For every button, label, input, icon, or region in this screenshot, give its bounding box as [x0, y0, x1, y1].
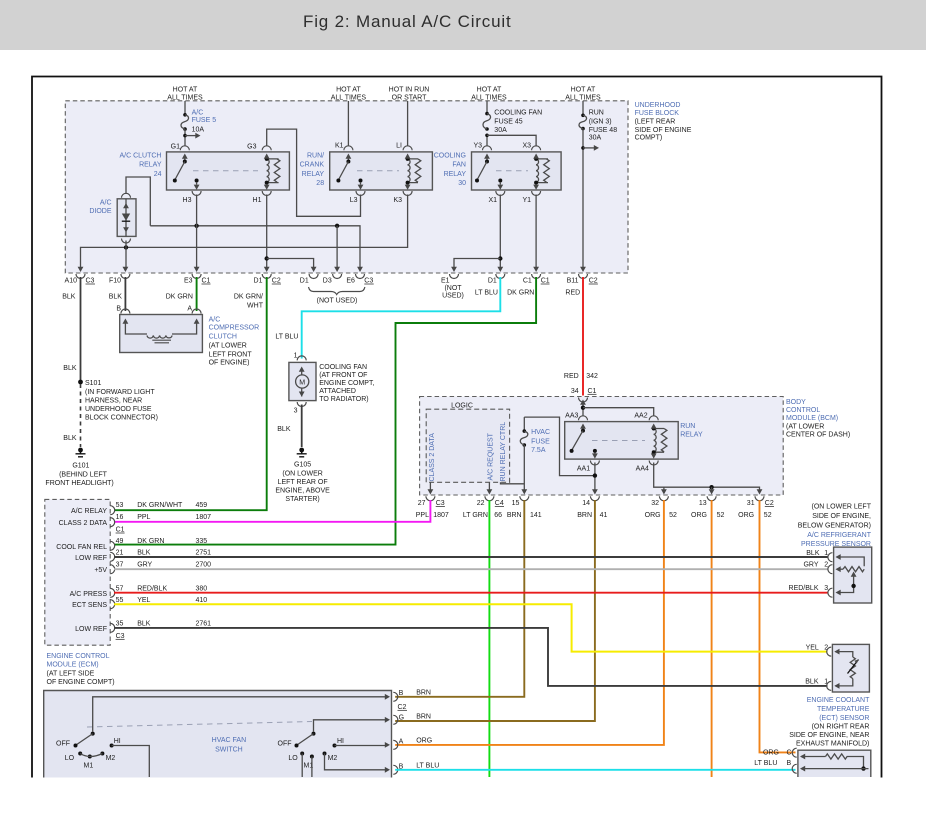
svg-text:342: 342 — [586, 373, 598, 380]
underhood fuse block (dashed box) — [65, 101, 628, 273]
svg-text:EXHAUST MANIFOLD): EXHAUST MANIFOLD) — [796, 741, 869, 748]
svg-text:AA1: AA1 — [577, 465, 590, 472]
svg-text:(ON LOWER: (ON LOWER — [282, 470, 322, 477]
diode symbol D1 — [122, 199, 130, 237]
label UNDERHOOD FUSE BLOCK (LEFT REAR SIDE OF ENGINE COMPT) — [635, 102, 692, 142]
svg-text:RELAY: RELAY — [444, 171, 467, 178]
coil in run relay — [651, 424, 667, 455]
svg-text:GRY: GRY — [803, 562, 818, 569]
svg-text:OF ENGINE COMPT): OF ENGINE COMPT) — [47, 679, 115, 686]
fuse F48 RUN (IGN 3) FUSE 48 30A — [579, 114, 587, 131]
svg-text:(AT LOWER: (AT LOWER — [209, 343, 247, 350]
pin G of HVAC switch — [385, 714, 404, 724]
fuse F45 COOLING FAN FUSE 45 30A — [483, 112, 491, 131]
wire: ground net A10-F10-diode-K3 — [81, 195, 408, 269]
svg-text:BODY: BODY — [786, 399, 806, 406]
A/C diode box — [117, 199, 136, 237]
svg-text:+5V: +5V — [94, 567, 107, 574]
svg-text:G105: G105 — [294, 462, 311, 469]
wire: fuse 5 to relay pin G1 with branch arrow — [183, 129, 200, 146]
svg-text:ALL TIMES: ALL TIMES — [331, 95, 367, 102]
HVAC fuse 7.5A — [520, 417, 528, 447]
svg-text:HVAC: HVAC — [531, 429, 550, 436]
wire ORG: BCM 31 to blower resistor pin C — [760, 500, 796, 752]
label A/C FUSE 5 10A — [192, 110, 217, 134]
svg-text:C2: C2 — [398, 704, 407, 711]
svg-text:F10: F10 — [109, 278, 121, 285]
svg-text:141: 141 — [530, 512, 542, 519]
svg-text:AA3: AA3 — [565, 413, 578, 420]
thermistor inside ECT sensor — [834, 649, 858, 689]
svg-text:C1: C1 — [116, 527, 125, 534]
svg-text:LO: LO — [65, 755, 75, 762]
svg-text:RUN: RUN — [680, 423, 695, 430]
svg-text:BLK: BLK — [63, 365, 77, 372]
pin G1 — [171, 143, 190, 150]
svg-text:LOW REF: LOW REF — [75, 555, 107, 562]
connector 22/C4 — [477, 496, 504, 507]
svg-text:M2: M2 — [328, 755, 338, 762]
connector 14 — [582, 496, 599, 507]
label G101 (BEHIND LEFT FRONT HEADLIGHT) — [45, 463, 113, 487]
svg-text:OF ENGINE): OF ENGINE) — [209, 360, 250, 367]
pin B of compressor clutch — [116, 306, 130, 314]
ECM pin 53 A/C RELAY — [71, 502, 207, 515]
ECM pin 57 A/C PRESS — [70, 586, 208, 599]
svg-text:C2: C2 — [272, 278, 281, 285]
svg-text:DIODE: DIODE — [89, 208, 112, 215]
svg-text:SIDE OF ENGINE: SIDE OF ENGINE — [635, 127, 692, 134]
cooling fan relay box — [472, 152, 562, 190]
svg-text:Y1: Y1 — [522, 197, 531, 204]
svg-text:OFF: OFF — [278, 741, 292, 748]
svg-text:SWITCH: SWITCH — [215, 747, 243, 754]
svg-text:7.5A: 7.5A — [531, 447, 546, 454]
svg-text:RED: RED — [564, 373, 579, 380]
svg-text:COOL FAN REL: COOL FAN REL — [56, 544, 107, 551]
svg-text:M1: M1 — [84, 762, 94, 769]
svg-text:30A: 30A — [494, 127, 507, 134]
svg-text:(ON RIGHT REAR: (ON RIGHT REAR — [812, 723, 870, 730]
svg-text:C3: C3 — [364, 278, 373, 285]
label ENGINE COOLANT TEMPERATURE (ECT) SENSOR (ON RIGHT REAR SIDE OF ENGINE, NEAR EXHAUST MANIFOLD) — [789, 697, 870, 748]
svg-text:S101: S101 — [85, 380, 101, 387]
wire: AA1 to BCM pin 14 — [592, 463, 598, 495]
label LT GRN 66 — [463, 512, 502, 519]
svg-text:LOW REF: LOW REF — [75, 626, 107, 633]
pin A of HVAC switch — [385, 738, 404, 749]
junction H1 branch — [265, 256, 269, 260]
svg-text:FUSE 48: FUSE 48 — [589, 127, 618, 134]
ground G101 — [76, 448, 86, 457]
svg-text:15: 15 — [512, 500, 520, 507]
svg-text:A/C RELAY: A/C RELAY — [71, 508, 107, 515]
svg-text:(AT LEFT SIDE: (AT LEFT SIDE — [47, 670, 95, 677]
svg-text:HOT AT: HOT AT — [173, 87, 198, 94]
blower resistor box (cut off at bottom) — [798, 750, 871, 777]
relay internal dashed link (cooling fan relay) — [496, 170, 528, 172]
svg-text:(ECT) SENSOR: (ECT) SENSOR — [819, 715, 869, 722]
pin Y3 — [473, 143, 491, 151]
label A/C DIODE — [89, 200, 112, 216]
ground G105 — [297, 448, 307, 457]
svg-text:C1: C1 — [588, 388, 597, 395]
wire ORG: BCM 32 to HVAC switch pin A — [395, 500, 664, 745]
connector E1 (not used) — [441, 267, 464, 300]
svg-text:LI: LI — [396, 143, 402, 150]
connector D1 (LT BLU) — [488, 267, 505, 285]
pin 2 of ECT sensor — [827, 647, 831, 656]
wire: G3 to L3 net — [267, 129, 361, 216]
svg-text:BRN: BRN — [507, 512, 522, 519]
svg-text:(ON LOWER LEFT: (ON LOWER LEFT — [811, 504, 871, 511]
connector 13 — [699, 496, 716, 507]
pin AA2 — [634, 413, 658, 421]
label YEL 2 (ECT pin) — [806, 645, 829, 652]
svg-text:Y3: Y3 — [473, 143, 482, 150]
wire BLK: F10 to compressor clutch pin B — [124, 277, 126, 311]
wire BLK: motor pin 3 to G105 — [301, 405, 303, 448]
connector 15 — [512, 496, 529, 507]
svg-text:G: G — [399, 714, 404, 721]
svg-text:HOT AT: HOT AT — [571, 87, 596, 94]
connector D1 (not used) — [300, 267, 318, 285]
label ENGINE CONTROL MODULE (ECM) (AT LEFT SIDE OF ENGINE COMPT) — [47, 653, 115, 686]
connector 32 — [651, 496, 668, 507]
svg-text:RUN RELAY CTRL: RUN RELAY CTRL — [500, 422, 507, 482]
svg-text:13: 13 — [699, 500, 707, 507]
wire: fuse 48 to B11 with branch arrow — [581, 129, 599, 269]
label A/C CLUTCH RELAY 24 — [119, 152, 161, 178]
svg-text:FRONT HEADLIGHT): FRONT HEADLIGHT) — [45, 480, 113, 487]
svg-text:459: 459 — [196, 502, 208, 509]
svg-text:C3: C3 — [86, 278, 95, 285]
label ORG 52 (pin 13) — [691, 512, 724, 519]
pin 3 of cooling fan motor — [294, 402, 307, 415]
svg-text:(NOT: (NOT — [444, 285, 462, 292]
svg-text:COOLING FAN: COOLING FAN — [494, 110, 542, 117]
ECM pin 35 LOW REF — [75, 621, 211, 640]
svg-text:BLOCK CONNECTOR): BLOCK CONNECTOR) — [85, 415, 158, 422]
svg-text:(AT FRONT OF: (AT FRONT OF — [319, 372, 367, 379]
svg-text:X3: X3 — [522, 143, 531, 150]
HVAC fan switch box — [44, 691, 392, 778]
svg-text:35: 35 — [116, 621, 124, 628]
svg-text:(NOT USED): (NOT USED) — [317, 298, 358, 305]
connector C1/C1 — [523, 267, 550, 285]
wire: A/C REQUEST to BCM pin 22 — [487, 482, 493, 494]
pin K1 — [335, 143, 353, 151]
svg-text:CLASS 2 DATA: CLASS 2 DATA — [429, 433, 436, 482]
svg-text:CLASS 2 DATA: CLASS 2 DATA — [59, 520, 108, 527]
svg-text:28: 28 — [316, 180, 324, 187]
relay internal dashed link (run relay) — [592, 440, 645, 442]
svg-text:B: B — [399, 690, 404, 697]
connector 34/C1 entry into BCM — [579, 398, 588, 405]
label DK GRN/ WHT (D1/C2) — [234, 294, 264, 310]
svg-text:410: 410 — [196, 597, 208, 604]
pin X1 — [488, 182, 504, 204]
svg-text:M: M — [299, 380, 305, 387]
svg-text:HOT AT: HOT AT — [477, 87, 502, 94]
svg-text:BRN: BRN — [416, 690, 431, 697]
svg-text:HOT IN RUN: HOT IN RUN — [389, 87, 430, 94]
svg-text:335: 335 — [196, 538, 208, 545]
wire PPL: BCM 27 to ECM 16 — [114, 500, 430, 522]
svg-text:AA4: AA4 — [636, 465, 649, 472]
wire RED: B11 to BCM pin 34 — [582, 277, 584, 396]
svg-text:BELOW GENERATOR): BELOW GENERATOR) — [798, 523, 871, 530]
svg-text:MODULE (ECM): MODULE (ECM) — [47, 662, 99, 669]
potentiometer inside pressure sensor — [836, 554, 865, 595]
svg-text:RUN/: RUN/ — [307, 152, 324, 159]
svg-text:BLK: BLK — [137, 550, 151, 557]
junction X1 branch — [498, 256, 502, 260]
svg-text:66: 66 — [494, 512, 502, 519]
svg-text:CONTROL: CONTROL — [786, 407, 820, 414]
svg-text:C1: C1 — [523, 278, 532, 285]
svg-text:E6: E6 — [346, 278, 355, 285]
svg-text:ORG: ORG — [645, 512, 661, 519]
fuse F5 A/C FUSE 5 10A — [181, 113, 189, 131]
labels OFF LO M1 M2 HI (left switch) — [56, 738, 121, 769]
svg-text:BLK: BLK — [63, 435, 77, 442]
A/C compressor clutch box — [120, 315, 203, 353]
svg-text:(BEHIND LEFT: (BEHIND LEFT — [59, 471, 108, 478]
engine control module (dashed box) — [45, 499, 110, 645]
pin B of blower resistor — [792, 764, 797, 773]
label BRN 41 — [577, 512, 607, 519]
svg-text:34: 34 — [571, 388, 579, 395]
svg-text:WHT: WHT — [247, 302, 264, 309]
svg-text:53: 53 — [116, 502, 124, 509]
svg-text:A10: A10 — [65, 278, 78, 285]
svg-text:32: 32 — [651, 500, 659, 507]
svg-text:D1: D1 — [488, 278, 497, 285]
svg-text:BLK: BLK — [137, 621, 151, 628]
svg-text:(AT LOWER: (AT LOWER — [786, 424, 824, 431]
resistor inside blower resistor box — [800, 754, 869, 772]
connector F10 — [109, 267, 130, 285]
label COOLING FAN FUSE 45 30A — [494, 110, 542, 135]
svg-text:PPL: PPL — [416, 512, 429, 519]
svg-text:10A: 10A — [192, 126, 205, 133]
relay internal dashed link (A/C clutch relay) — [193, 170, 258, 172]
pin AA4 — [636, 453, 659, 472]
labels OFF LO M1 M2 HI (right switch) — [278, 738, 345, 769]
svg-text:FUSE: FUSE — [531, 438, 550, 445]
connector A10/C3 — [65, 267, 95, 285]
svg-text:M2: M2 — [106, 755, 116, 762]
pin: diode top connector arc — [122, 193, 131, 198]
svg-text:41: 41 — [600, 512, 608, 519]
switch in run/crank relay — [336, 154, 362, 183]
svg-text:C: C — [787, 749, 792, 756]
wire: HVAC fuse top to AA1 junction — [524, 417, 595, 476]
svg-text:HOT AT: HOT AT — [336, 87, 361, 94]
svg-text:MODULE (BCM): MODULE (BCM) — [786, 415, 838, 422]
wire GRY 2700: ECM 37 to pressure sensor pin 2 — [114, 568, 828, 570]
label pin 34 C1 — [571, 388, 597, 395]
pin 3 RED/BLK of pressure sensor — [789, 585, 833, 597]
svg-text:RELAY: RELAY — [302, 171, 325, 178]
svg-text:K1: K1 — [335, 143, 344, 150]
svg-text:2761: 2761 — [196, 621, 212, 628]
svg-text:B: B — [116, 306, 121, 313]
label G105 (ON LOWER LEFT REAR OF ENGINE, ABOVE STARTER) — [275, 462, 330, 504]
svg-text:UNDERHOOD FUSE: UNDERHOOD FUSE — [85, 406, 152, 413]
svg-text:HARNESS, NEAR: HARNESS, NEAR — [85, 398, 142, 405]
label BODY CONTROL MODULE (BCM) (AT LOWER CENTER OF DASH) — [786, 399, 850, 439]
svg-text:ALL TIMES: ALL TIMES — [471, 95, 507, 102]
svg-text:H1: H1 — [253, 197, 262, 204]
switch in A/C clutch relay — [173, 154, 199, 183]
svg-text:PPL: PPL — [137, 514, 150, 521]
svg-text:RELAY: RELAY — [139, 162, 162, 169]
wire: right switch LO down (cut off) — [301, 754, 303, 778]
svg-text:ORG: ORG — [416, 738, 432, 745]
ECM pin 49 COOL FAN REL — [56, 538, 207, 551]
svg-text:UNDERHOOD: UNDERHOOD — [635, 102, 681, 109]
svg-text:(IGN 3): (IGN 3) — [589, 118, 612, 125]
svg-text:ALL TIMES: ALL TIMES — [167, 95, 203, 102]
wire: K1 feed — [347, 101, 349, 146]
svg-text:BLK: BLK — [805, 679, 819, 686]
svg-text:(IN FORWARD LIGHT: (IN FORWARD LIGHT — [85, 389, 155, 396]
connector E3/C1 — [184, 267, 211, 285]
svg-text:OFF: OFF — [56, 741, 70, 748]
svg-text:TEMPERATURE: TEMPERATURE — [817, 706, 870, 713]
pin 1 of cooling fan motor — [294, 353, 307, 361]
svg-text:1807: 1807 — [433, 512, 449, 519]
wire BLK 2761: ECM 35 to ECT sensor pin 1 — [114, 628, 828, 686]
svg-text:A/C REFRIGERANT: A/C REFRIGERANT — [807, 532, 872, 539]
svg-text:RUN: RUN — [589, 110, 604, 117]
right switch wiper and contacts — [295, 732, 337, 759]
wire: AA4 to BCM pins 32/13/31 — [654, 463, 763, 495]
label RUN RELAY — [680, 423, 703, 438]
svg-text:3: 3 — [294, 408, 298, 415]
wire: feed to A/C fuse 5 — [184, 101, 186, 114]
wire DK GRN/WHT: D1/C2 down to ECM pin 53 — [114, 277, 267, 510]
wire: branch to D3 connector — [336, 226, 338, 269]
switch in cooling fan relay — [475, 154, 502, 183]
label RED 342 — [564, 373, 598, 380]
wire: Y1 to C1/C1 connector — [535, 195, 537, 269]
wire ORG: BCM 13 down (cut off) — [711, 500, 713, 777]
wire: feed to cooling fan fuse 45 — [486, 101, 488, 113]
ECM pin 16 CLASS 2 DATA — [59, 514, 212, 534]
label LT BLU B (blower resistor pin B) — [754, 760, 791, 767]
wire: branch to E1 connector — [454, 259, 500, 269]
junction D3 branch — [335, 224, 339, 228]
svg-text:ENGINE CONTROL: ENGINE CONTROL — [47, 653, 110, 660]
cooling fan motor box — [289, 362, 316, 400]
svg-text:BLK: BLK — [806, 550, 820, 557]
svg-text:A/C REQUEST: A/C REQUEST — [487, 432, 494, 480]
svg-text:1807: 1807 — [196, 514, 212, 521]
wire: H3 to E3 connector — [196, 195, 198, 269]
junction diode bottom to ground net — [124, 245, 128, 249]
svg-text:B11: B11 — [567, 278, 579, 285]
pin 2 GRY of pressure sensor — [803, 562, 832, 574]
wire RED/BLK 380: ECM 57 to pressure sensor pin 3 — [114, 592, 828, 594]
svg-text:H3: H3 — [183, 197, 192, 204]
svg-text:DK GRN: DK GRN — [166, 294, 193, 301]
pin C of blower resistor — [792, 748, 797, 757]
svg-text:E1: E1 — [441, 278, 450, 285]
svg-text:31: 31 — [747, 500, 755, 507]
svg-text:FUSE BLOCK: FUSE BLOCK — [635, 110, 680, 117]
wire BLK 2751: ECM 21 to pressure sensor pin 1 — [114, 556, 828, 558]
label ORG C (blower resistor pin C) — [763, 749, 792, 756]
pin B (LT BLU) of HVAC switch — [385, 763, 404, 774]
wire LT BLU: HVAC switch pin B to blower resistor pin B — [395, 769, 795, 771]
svg-text:BLK: BLK — [62, 294, 76, 301]
label S101 location — [85, 389, 158, 422]
wire BRN 141: BCM 15 to HVAC switch pin B — [395, 500, 524, 697]
svg-text:C3: C3 — [116, 633, 125, 640]
brace under D1 D3 E6 with label (NOT USED) — [309, 287, 365, 305]
svg-text:L3: L3 — [350, 197, 358, 204]
pin LI — [396, 143, 412, 151]
svg-text:2700: 2700 — [196, 562, 212, 569]
svg-text:LEFT REAR OF: LEFT REAR OF — [278, 479, 328, 486]
wire: diode top to H3/D3/E6 net — [126, 177, 150, 226]
svg-text:RELAY: RELAY — [680, 431, 703, 438]
svg-text:C2: C2 — [765, 500, 774, 507]
svg-text:USED): USED) — [442, 293, 464, 300]
svg-text:(LEFT REAR: (LEFT REAR — [635, 118, 676, 125]
svg-text:2751: 2751 — [196, 550, 212, 557]
svg-text:LT BLU: LT BLU — [275, 334, 298, 341]
svg-text:COMPT): COMPT) — [635, 135, 663, 142]
svg-text:D1: D1 — [254, 278, 263, 285]
coil in run/crank relay — [405, 154, 421, 185]
svg-text:LT BLU: LT BLU — [416, 763, 439, 770]
pin K3 — [393, 184, 412, 204]
svg-text:G101: G101 — [72, 463, 89, 470]
svg-text:FUSE 5: FUSE 5 — [192, 117, 217, 124]
label HVAC FAN SWITCH — [212, 737, 247, 754]
page frame border — [32, 77, 882, 778]
svg-text:ENGINE, ABOVE: ENGINE, ABOVE — [275, 487, 330, 494]
svg-text:DK GRN: DK GRN — [137, 538, 164, 545]
svg-text:52: 52 — [717, 512, 725, 519]
header bar — [0, 0, 926, 50]
svg-text:LO: LO — [288, 755, 298, 762]
svg-text:LT BLU: LT BLU — [475, 290, 498, 297]
wire: H1 to D1/C2 connector — [266, 195, 268, 269]
ganged switch dashed link — [87, 722, 312, 728]
svg-text:DK GRN/WHT: DK GRN/WHT — [137, 502, 183, 509]
wire LT BLU: D1 to cooling fan motor pin 1 — [302, 277, 501, 359]
svg-text:CENTER OF DASH): CENTER OF DASH) — [786, 432, 850, 439]
svg-text:C2: C2 — [589, 278, 598, 285]
svg-text:HI: HI — [337, 738, 344, 745]
svg-text:B: B — [787, 760, 792, 767]
body control module (dashed box) — [420, 397, 784, 496]
svg-text:RED: RED — [565, 290, 580, 297]
svg-text:A/C: A/C — [192, 110, 204, 117]
svg-text:SIDE OF ENGINE,: SIDE OF ENGINE, — [812, 513, 871, 520]
svg-text:G1: G1 — [171, 143, 180, 150]
svg-text:30: 30 — [458, 180, 466, 187]
svg-text:22: 22 — [477, 500, 485, 507]
pin AA1 — [577, 453, 600, 473]
svg-text:BRN: BRN — [577, 512, 592, 519]
svg-text:24: 24 — [154, 171, 162, 178]
